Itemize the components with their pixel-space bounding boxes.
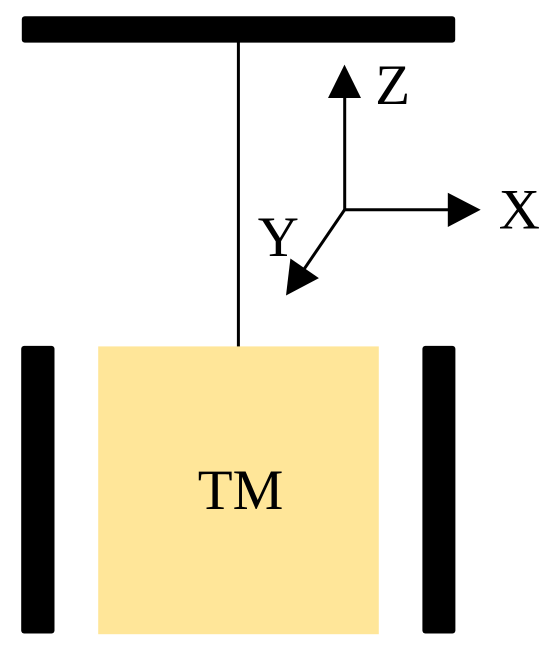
X axis arrowhead	[448, 193, 481, 227]
test mass TM	[98, 346, 379, 634]
svg-text:Y: Y	[258, 206, 299, 269]
fiber wire	[237, 43, 240, 350]
svg-text:X: X	[499, 179, 540, 242]
top suspension bar	[22, 16, 455, 42]
Y axis arrowhead	[286, 259, 319, 296]
X axis	[345, 208, 450, 211]
svg-text:TM: TM	[198, 459, 283, 522]
Z axis	[343, 96, 346, 210]
Z axis arrowhead	[328, 65, 361, 98]
right electrode bar	[422, 346, 455, 634]
svg-text:Z: Z	[375, 54, 410, 117]
left electrode bar	[21, 346, 54, 634]
Y axis	[296, 210, 345, 281]
